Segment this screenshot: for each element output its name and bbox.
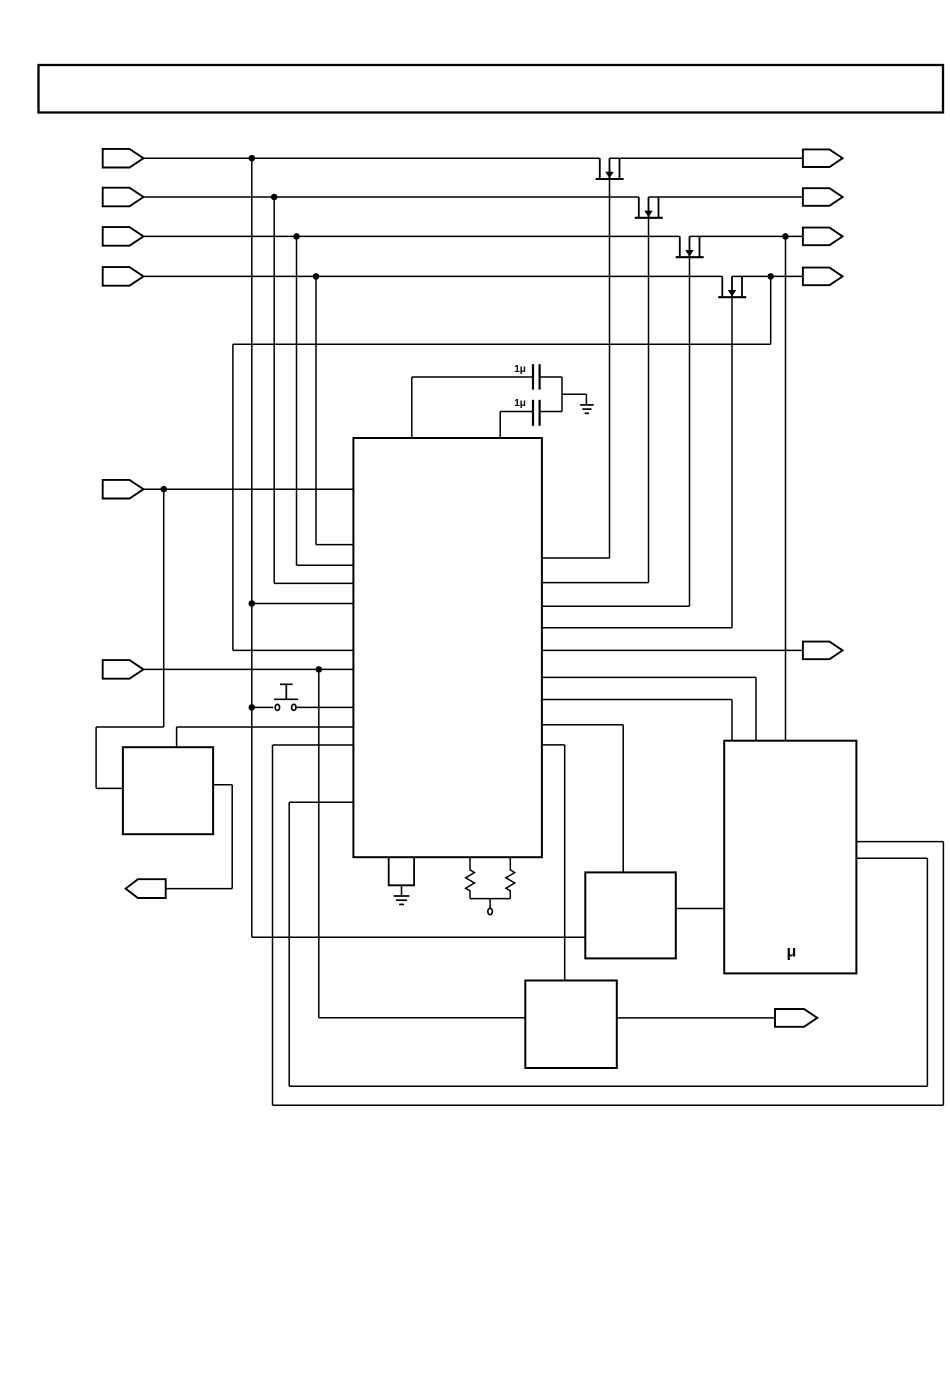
svg-text:1μ: 1μ	[514, 398, 526, 409]
svg-text:μ: μ	[787, 944, 797, 961]
svg-text:1μ: 1μ	[514, 364, 526, 375]
